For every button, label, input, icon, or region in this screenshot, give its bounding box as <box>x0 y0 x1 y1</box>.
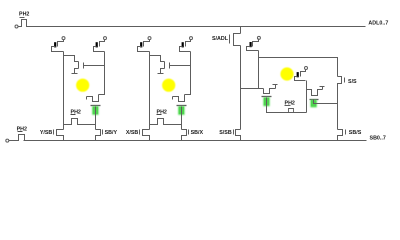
gate bar feedback <box>86 97 88 100</box>
svg-text:SB/S: SB/S <box>349 130 362 136</box>
wire pass gate down <box>95 107 97 130</box>
pass transistor gate (green highlight) <box>92 106 98 115</box>
node storage (yellow highlight) <box>162 79 175 92</box>
terminal PH2 (top-left) <box>15 25 18 28</box>
ground tick <box>72 73 78 75</box>
transistor SB/Y pass <box>96 130 101 141</box>
svg-text:S/SB: S/SB <box>219 130 232 136</box>
gate bar S/S <box>344 78 346 83</box>
wire inverter gate to storage node <box>170 65 191 67</box>
ground tick <box>158 73 164 75</box>
wire S pull-up 2 drop <box>306 81 308 113</box>
underline PH2 (cell clock) <box>157 114 162 116</box>
gate plate pass transistor <box>177 105 187 107</box>
transistor Y pull-up right <box>104 37 107 40</box>
transistor X inverter gate bar <box>169 63 171 69</box>
gate stub T bar <box>273 84 278 86</box>
svg-text:Y/SB: Y/SB <box>40 130 53 136</box>
wire ADL bus rail (top) <box>27 26 366 28</box>
wire inverter drain tap <box>150 56 165 62</box>
transistor S/SB pass <box>236 130 241 141</box>
wire S pass 2 gate right <box>314 100 338 104</box>
pass transistor gate (green highlight) <box>178 106 184 115</box>
pass transistor S2 gate (green highlight) <box>310 100 316 108</box>
gate stub T 2 bar <box>320 86 325 88</box>
svg-text:SB/X: SB/X <box>191 130 204 136</box>
wire S storage cup 2 <box>307 90 323 96</box>
gate bar SB/S <box>345 130 347 135</box>
gate stub T <box>275 85 277 89</box>
gate plate S pass 1 <box>262 96 272 98</box>
gate bar SB/Y <box>102 130 104 135</box>
terminal PH2 (bottom-left) <box>6 139 9 142</box>
transistor S/S pass <box>338 77 342 130</box>
gate stub T 2 <box>322 87 324 90</box>
wire inverter source <box>161 69 165 74</box>
transistor X pull-up left <box>148 37 151 40</box>
pulse PH2 (S clock) <box>287 109 294 113</box>
node storage (yellow highlight) <box>76 79 89 92</box>
underline PH2 (top-left) <box>20 17 25 19</box>
wire S pull-up 1 drop <box>258 51 260 89</box>
svg-text:S/S: S/S <box>348 79 357 85</box>
gate plate pass transistor <box>91 105 101 107</box>
transistor S pull-up 1 <box>257 36 260 39</box>
transistor SB/X pass <box>182 130 187 141</box>
wire inverter drain tap <box>64 56 79 62</box>
pulse PH2 on ADL rail <box>18 20 28 27</box>
gate bar SB/X <box>188 130 190 135</box>
pulse PH2 (cell clock) <box>150 119 182 125</box>
wire S storage node <box>241 88 264 90</box>
svg-text:S/ADL: S/ADL <box>212 36 229 42</box>
wire left rail <box>63 52 65 130</box>
wire inverter gate to storage node <box>84 65 105 67</box>
transistor Y/SB pass <box>57 130 64 141</box>
gate bar X/SB <box>139 130 141 135</box>
svg-text:SB0..7: SB0..7 <box>370 136 386 142</box>
svg-text:ADL0..7: ADL0..7 <box>368 20 388 26</box>
transistor S pull-up 2 <box>305 67 308 70</box>
wire ADL tap down <box>240 27 242 34</box>
svg-text:X/SB: X/SB <box>126 130 139 136</box>
pass transistor S1 gate (green highlight) <box>263 97 269 106</box>
svg-text:SB/Y: SB/Y <box>105 130 118 136</box>
transistor SB/S pass <box>338 130 343 141</box>
wire right rail <box>99 52 105 95</box>
underline PH2 (S clock) <box>285 105 291 107</box>
gate bar Y/SB <box>53 130 55 135</box>
transistor X inverter channel <box>164 62 166 69</box>
pulse PH2 on SB rail <box>9 135 26 141</box>
gate bar S/SB <box>233 130 235 135</box>
gate bar feedback <box>172 97 174 100</box>
pulse PH2 (cell clock) <box>64 119 96 125</box>
transistor S/ADL pass <box>234 34 241 46</box>
wire S left rail <box>240 46 242 130</box>
gate plate S pass 2 <box>310 99 319 101</box>
underline PH2 (cell clock) <box>71 114 76 116</box>
wire storage cup <box>87 95 99 102</box>
wire S pass 1 gate down <box>267 98 307 113</box>
transistor X/SB pass <box>143 130 150 141</box>
wire inverter source <box>75 69 79 74</box>
underline PH2 (bottom-left) <box>18 131 23 133</box>
wire storage cup <box>173 95 185 102</box>
wire S node to S/S <box>259 58 338 77</box>
node S storage (yellow highlight) <box>280 67 293 80</box>
gate bar S/ADL <box>229 35 231 44</box>
transistor Y inverter gate bar <box>83 63 85 69</box>
wire pass gate down <box>181 107 183 130</box>
transistor Y pull-up left <box>62 37 65 40</box>
transistor Y inverter channel <box>78 62 80 69</box>
wire SB bus rail (bottom) <box>24 140 367 142</box>
svg-text:PH2: PH2 <box>19 12 29 18</box>
wire S storage cup <box>264 89 276 94</box>
wire right rail <box>185 52 191 95</box>
transistor X pull-up right <box>190 37 193 40</box>
wire left rail <box>149 52 151 130</box>
